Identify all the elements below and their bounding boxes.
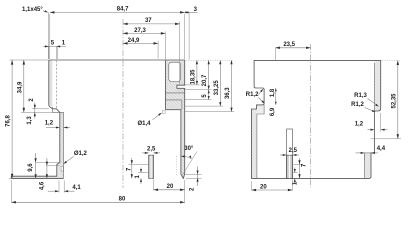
dim 76,8 left bbox=[11, 60, 13, 178]
extension y=138.8 bbox=[371, 138, 402, 140]
extension y=99.6 right bbox=[185, 99, 211, 101]
dim 4,1 bbox=[48, 190, 59, 192]
dim 33,25 bbox=[219, 60, 221, 106]
svg-text:Ø1,4: Ø1,4 bbox=[137, 121, 151, 127]
dotted extension at top edge level to the right bbox=[186, 59, 234, 61]
dim 5 right side bbox=[208, 90, 210, 100]
right wall section fill (upper block) bbox=[165, 60, 184, 110]
dim 20,7 bbox=[208, 60, 210, 89]
dim 84,7 top bbox=[50, 11, 185, 13]
extension x=275.3 bbox=[274, 48, 276, 60]
dim 34,9 bbox=[23, 60, 25, 112]
svg-text:52,35: 52,35 bbox=[391, 93, 397, 109]
extension y=89.6 right bbox=[185, 89, 211, 91]
right view outline bbox=[252, 60, 381, 178]
dim 20 right view bbox=[252, 189, 293, 191]
right wall inner face bbox=[164, 60, 166, 110]
svg-text:80: 80 bbox=[119, 197, 126, 203]
extension line x=179.7 for dim 37 bbox=[179, 22, 181, 86]
svg-text:84,7: 84,7 bbox=[117, 7, 129, 13]
dim 52,35 bbox=[397, 60, 399, 138]
dim 3 top right bbox=[185, 11, 198, 13]
extension y=106.1 right bbox=[185, 105, 223, 107]
inner edge line of left wall band bbox=[256, 114, 258, 178]
dim 2 small left bbox=[34, 103, 36, 119]
extension y=84.9 right bbox=[185, 84, 200, 86]
extension line x=158.1 bbox=[157, 41, 159, 59]
extension bottom left corner bbox=[9, 177, 11, 179]
hole O1,4 notch bbox=[162, 111, 165, 114]
extension top edge left bbox=[10, 59, 49, 61]
left wall outer edge bbox=[11, 60, 63, 178]
svg-text:4,6: 4,6 bbox=[40, 181, 46, 190]
top edge of profile bbox=[49, 59, 185, 61]
internal rib (slot) of right view bbox=[287, 129, 293, 178]
dim 1 slot bbox=[140, 168, 142, 173]
extension line x=184.7 above part bbox=[184, 14, 186, 59]
dim 37 bbox=[123, 23, 180, 25]
hidden dotted line at chamfer bbox=[176, 156, 178, 176]
dim 9,6 bbox=[35, 153, 37, 178]
pocket cutout in right wall bbox=[169, 62, 181, 81]
svg-text:27,3: 27,3 bbox=[134, 28, 146, 34]
extension line x=165.4 up bbox=[164, 32, 166, 60]
dim 5 and 1 top left bbox=[43, 45, 66, 47]
svg-text:33,25: 33,25 bbox=[214, 80, 220, 96]
svg-text:23,5: 23,5 bbox=[283, 42, 295, 48]
svg-text:R1,3: R1,3 bbox=[354, 93, 367, 99]
svg-text:2,5: 2,5 bbox=[147, 146, 156, 152]
dim 30deg chamfer bbox=[182, 152, 198, 177]
step line y=109.7 bbox=[165, 109, 181, 111]
dim 7 right view bbox=[299, 158, 301, 178]
step line right y=152.9 inner bbox=[365, 152, 372, 154]
extension y=111.6 right bbox=[185, 111, 234, 113]
dim 23,5 bbox=[275, 47, 310, 49]
dim 20 bottom right of left view bbox=[154, 189, 185, 191]
svg-text:1,3: 1,3 bbox=[27, 116, 33, 125]
step tick at y=162.4 on left wall bbox=[36, 161, 60, 163]
inner edge line right lower band bbox=[364, 153, 366, 178]
centerline of left view bbox=[122, 19, 124, 188]
small hole O1,2 in left wall bbox=[61, 166, 63, 171]
svg-text:1,1x45°: 1,1x45° bbox=[22, 7, 43, 13]
right wall section fill (lower band) bbox=[181, 110, 185, 179]
dim 27,3 bbox=[123, 32, 165, 34]
extension lines for chamfer at 84,7 left end bbox=[47, 12, 49, 59]
dim 18,35 bbox=[196, 60, 198, 85]
svg-text:20: 20 bbox=[260, 184, 267, 190]
dim 1 right view bbox=[294, 168, 296, 173]
svg-text:20,7: 20,7 bbox=[202, 74, 208, 86]
tiny dim lines near notch bbox=[275, 88, 277, 105]
dotted extension top right bbox=[382, 59, 401, 61]
left wall section fill (top band) bbox=[49, 60, 53, 107]
svg-text:9,6: 9,6 bbox=[28, 163, 34, 172]
right wall outer edge bbox=[177, 60, 185, 174]
svg-text:37: 37 bbox=[145, 18, 152, 24]
svg-text:24,9: 24,9 bbox=[128, 38, 140, 44]
dim 7 slot height bbox=[131, 158, 133, 178]
step tick at y=165.8 on left wall bbox=[47, 165, 60, 167]
svg-text:Ø1,2: Ø1,2 bbox=[74, 151, 88, 157]
svg-text:R1,2: R1,2 bbox=[351, 102, 364, 108]
left wall inner edge bbox=[52, 107, 63, 178]
centerline of right view bbox=[310, 44, 312, 188]
dim 24,9 bbox=[123, 42, 158, 44]
dim 2 bottom right chamfer bbox=[197, 167, 199, 186]
right wall bottom 30deg chamfer bbox=[181, 110, 185, 179]
leader 1,1x45 bbox=[43, 11, 47, 13]
dim 4,6 bbox=[46, 158, 48, 178]
svg-text:30°: 30° bbox=[184, 146, 194, 152]
extension y=112.4 left bbox=[21, 111, 52, 113]
extension line x=189.1 bbox=[188, 12, 190, 59]
svg-text:36,3: 36,3 bbox=[225, 87, 231, 99]
dim 36,3 bbox=[231, 60, 233, 111]
inner edge step below notch bbox=[257, 105, 264, 114]
internal step line y=99.9 bbox=[165, 100, 182, 110]
svg-text:20: 20 bbox=[167, 184, 174, 190]
svg-text:76,8: 76,8 bbox=[5, 115, 11, 127]
groove white cutout right wall bbox=[177, 86, 185, 89]
svg-text:1,8: 1,8 bbox=[270, 88, 276, 97]
section hatching bbox=[49, 102, 52, 105]
dim 80 bottom bbox=[11, 201, 184, 203]
hidden edge line at top-left wall bbox=[55, 60, 57, 109]
svg-text:1,2: 1,2 bbox=[355, 122, 364, 128]
left wall section fill (lower band and bottom tab) bbox=[11, 112, 63, 178]
svg-text:R1,2: R1,2 bbox=[246, 92, 259, 98]
svg-text:4,1: 4,1 bbox=[72, 185, 81, 191]
svg-text:6,9: 6,9 bbox=[270, 107, 276, 116]
hatch band left edge of right view bbox=[252, 105, 265, 178]
svg-text:2,5: 2,5 bbox=[289, 148, 298, 154]
svg-text:1,2: 1,2 bbox=[45, 120, 54, 126]
svg-text:34,9: 34,9 bbox=[18, 81, 24, 93]
svg-text:4,4: 4,4 bbox=[377, 146, 386, 152]
internal step line y=92.9 bbox=[165, 92, 184, 94]
bottom slot walls (gray) bbox=[149, 155, 154, 178]
svg-text:18,35: 18,35 bbox=[191, 69, 197, 85]
inner edge line right upper band bbox=[373, 63, 375, 111]
